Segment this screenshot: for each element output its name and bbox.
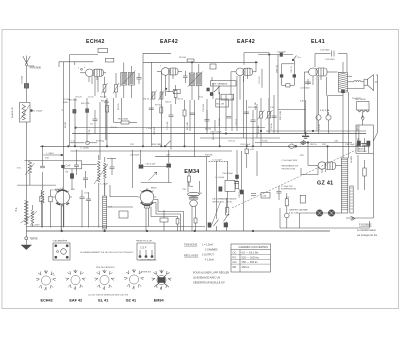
tube base diagram EM34 (152, 270, 172, 290)
antenna coil L1 (20, 103, 33, 201)
coupling coil (21, 205, 38, 227)
small box component (119, 211, 128, 218)
svg-text:R5 0,5MΩ: R5 0,5MΩ (118, 119, 128, 121)
tone capacitor C22 line (315, 50, 347, 73)
potentiometer line L.D. (70, 140, 97, 144)
wire (246, 146, 248, 149)
ECH42 anode wires down (95, 77, 98, 96)
svg-text:6,3V 0,3A: 6,3V 0,3A (320, 109, 330, 112)
AVC time-constant box (225, 161, 239, 207)
svg-text:PRISE PICK-UP: PRISE PICK-UP (136, 241, 153, 243)
magic eye EM34 tube (188, 181, 200, 231)
heater stub line (278, 109, 306, 111)
output transformer T4 (339, 62, 365, 158)
svg-text:R8 0,3M: R8 0,3M (187, 122, 189, 130)
junction dot (42, 146, 44, 148)
svg-text:ECH42: ECH42 (41, 299, 53, 303)
wire (303, 72, 305, 134)
short bus wire (43, 153, 63, 156)
svg-text:RES. VARIABLE: RES. VARIABLE (212, 83, 228, 86)
label FUSIBLE (357, 222, 378, 237)
junction dot (161, 146, 163, 148)
svg-text:C7 5k: C7 5k (89, 129, 91, 135)
lamp wires (299, 213, 341, 228)
wire (205, 157, 207, 231)
grid resistor R1 with arrow (102, 77, 108, 98)
svg-text:SELF: SELF (357, 125, 359, 131)
svg-text:LAMPES CADRAN: LAMPES CADRAN (289, 209, 308, 212)
svg-text:R15 0,5M: R15 0,5M (280, 111, 282, 120)
output pentode EL41 tube body (304, 68, 337, 76)
wire (277, 55, 279, 134)
AF network wires (133, 150, 172, 188)
svg-text:LA +250V: LA +250V (30, 223, 40, 226)
svg-text:R7 60k: R7 60k (155, 105, 163, 107)
EAF42-2 pin stubs (240, 75, 248, 99)
dial lamp 2 (328, 210, 334, 216)
svg-text:REGLE VOL. + TON.: REGLE VOL. + TON. (213, 201, 233, 203)
svg-text:R20 2MΩ: R20 2MΩ (152, 144, 162, 146)
mains switch capacitor blob (280, 53, 283, 57)
filter choke (103, 183, 107, 231)
ECH42 pin stubs (89, 77, 97, 85)
routed wire to EM34 socket (110, 185, 138, 197)
svg-text:C.50+50µF 350V: C.50+50µF 350V (282, 160, 298, 162)
switch on AVC bus (165, 141, 171, 147)
svg-text:R5 27k: R5 27k (118, 102, 120, 110)
svg-text:C28 50pF: C28 50pF (130, 155, 140, 157)
resistor blob right (62, 165, 65, 167)
screen resistor R2 with arrow (113, 73, 119, 98)
coupling resistor dark blob (167, 164, 171, 168)
svg-text:C E F: C E F (140, 246, 147, 250)
EAF42-1 pin stubs (166, 75, 174, 96)
heater bus wire (72, 133, 366, 135)
junction dot (104, 230, 106, 232)
capacitor C11 (165, 102, 174, 150)
IF transformer T1 secondary coil (120, 66, 136, 98)
resistor R23 (226, 208, 229, 216)
grid resistor with arrow (EAF42-1) (159, 91, 165, 101)
svg-text:VUE DE DESSOUS: VUE DE DESSOUS (96, 267, 115, 269)
trimmer arrow (149, 172, 157, 180)
svg-text:VUE ARRIÈRE: VUE ARRIÈRE (53, 240, 68, 243)
dial lamp 1 (316, 210, 322, 216)
wire (256, 151, 258, 176)
wire (231, 95, 233, 131)
transformer secondary winding (350, 186, 353, 213)
junction dot (327, 146, 329, 148)
electrolytic cap symbol 2 (301, 141, 307, 145)
wire (348, 92, 350, 158)
filter capacitor C51 (362, 138, 367, 152)
svg-text:C14 0,1: C14 0,1 (236, 118, 238, 126)
svg-text:C1 50pF: C1 50pF (22, 75, 24, 84)
svg-text:150 — 300 kc: 150 — 300 kc (242, 260, 259, 264)
capacitor C12b bars (190, 113, 195, 115)
svg-text:C30 0,05µF: C30 0,05µF (210, 131, 222, 133)
svg-text:2x300V: 2x300V (351, 155, 353, 163)
junction dot (225, 133, 227, 135)
svg-text:C5 50: C5 50 (88, 97, 94, 99)
svg-text:EM34: EM34 (154, 299, 165, 303)
svg-text:L.D.: L.D. (71, 140, 75, 142)
switch blob (224, 223, 228, 227)
GZ41 plate wire (327, 146, 329, 162)
resistor R4 (101, 98, 109, 146)
wire (243, 190, 245, 231)
wire (150, 62, 152, 146)
svg-text:TERRE: TERRE (30, 238, 39, 241)
resistor R12 (255, 98, 265, 146)
junction dot (74, 146, 76, 148)
svg-text:C. 10000: C. 10000 (80, 147, 90, 149)
svg-text:R16 1M: R16 1M (213, 132, 215, 140)
capacitor C15b bars (226, 116, 231, 118)
wire (236, 76, 238, 131)
resistor R8 (183, 100, 186, 146)
svg-text:C30 200: C30 200 (154, 126, 156, 135)
svg-text:L1 100pF: L1 100pF (33, 111, 43, 113)
ground symbol (21, 245, 31, 250)
svg-text:ECH42: ECH42 (86, 39, 105, 45)
junction dot (191, 62, 193, 64)
detector box lower (221, 94, 234, 100)
resistor R14 (266, 98, 273, 134)
cathode bus wire (70, 150, 232, 152)
svg-text:C. 0,05µF: C. 0,05µF (215, 177, 225, 179)
svg-text:C12 100: C12 100 (203, 103, 205, 112)
note la commande (213, 198, 238, 204)
svg-text:1 = 1,5mA: 1 = 1,5mA (202, 243, 213, 246)
AF coupling network (207, 99, 228, 131)
capacitor bars left (277, 186, 282, 200)
label lamps (289, 209, 308, 215)
svg-text:C+R: C+R (66, 165, 71, 168)
svg-text:est protégé par fus.: est protégé par fus. (357, 234, 378, 237)
svg-text:GÉNÉRATEUR MODULÉ H.F.: GÉNÉRATEUR MODULÉ H.F. (193, 281, 226, 284)
wire (246, 154, 248, 169)
label C50 (282, 160, 299, 170)
wire grid bus (converter top) (59, 55, 98, 147)
eye grid resistor R18 (188, 171, 193, 187)
loudspeaker (348, 75, 378, 91)
svg-text:SUPPRESSION: SUPPRESSION (281, 189, 297, 191)
padding capacitor left (40, 146, 45, 168)
svg-text:LA COMMANDE UNIQUE: LA COMMANDE UNIQUE (213, 198, 238, 201)
middle components row: AVC resistors (69, 98, 77, 146)
diagonal drive cord (dashed) (232, 150, 356, 208)
triode-hexode ECH42 tube body (80, 67, 106, 77)
oscillator trimmer C14 (107, 158, 116, 175)
svg-text:PROTECTION: PROTECTION (282, 168, 296, 170)
oscillator coil L3 (94, 157, 108, 195)
legend heading TOUTES LES (184, 243, 199, 258)
screen decoupling cluster (EAF42-1) (155, 105, 163, 147)
svg-text:PRISE 8 B: PRISE 8 B (141, 271, 152, 273)
wire (218, 86, 220, 94)
svg-text:R1 50k: R1 50k (63, 99, 71, 101)
svg-text:C8 40: C8 40 (107, 106, 109, 112)
svg-text:C21 5k: C21 5k (291, 66, 293, 72)
wire (236, 150, 238, 182)
resistor R3 (81, 98, 89, 143)
sprinkled component labels (45, 96, 361, 208)
wire (261, 69, 263, 88)
note block bottom (193, 271, 229, 284)
wire (243, 76, 245, 138)
tube base diagram EL41 (95, 270, 115, 290)
frame antenna coil (cadre) (25, 200, 29, 237)
EL41 pin stubs (313, 76, 321, 131)
svg-text:EM34: EM34 (184, 169, 199, 175)
resistor R5 horizontal (114, 119, 137, 125)
svg-text:452 kc: 452 kc (242, 265, 250, 269)
legend items (202, 243, 218, 261)
detector load box (210, 64, 216, 69)
secondary bus wire (200, 137, 280, 139)
svg-text:RESISTANCE DE: RESISTANCE DE (282, 165, 299, 168)
svg-text:0,1µF: 0,1µF (104, 102, 110, 104)
capacitor (80, 190, 85, 228)
chassis bus lower (26, 230, 330, 232)
svg-text:R18 2M: R18 2M (205, 155, 213, 157)
rear view socket box (pickup) (136, 241, 155, 261)
svg-text:R2 1MΩ: R2 1MΩ (69, 100, 77, 102)
junction dot (246, 146, 248, 148)
svg-text:SELF: SELF (107, 207, 113, 209)
svg-text:ECH42: ECH42 (55, 189, 62, 191)
speaker coupling capacitor blob (342, 90, 345, 93)
svg-text:R17 1kΩ: R17 1kΩ (96, 141, 105, 143)
detector load box long (211, 81, 237, 86)
GZ41 cathode wire (307, 143, 309, 166)
frame-grid coupling left: tuning gang section 1 (40, 190, 43, 228)
routed wires socket to magic eye (151, 200, 184, 232)
wire (286, 218, 288, 228)
wire (215, 226, 217, 231)
tube socket EM34 (underside view circle) (138, 188, 157, 231)
svg-text:GZ 41: GZ 41 (126, 299, 137, 303)
wire (241, 151, 243, 190)
svg-text:R6 2k: R6 2k (144, 99, 150, 101)
capacitor C17 (244, 112, 249, 114)
svg-text:TENSION: TENSION (358, 151, 367, 153)
pickup jack circle (285, 213, 290, 218)
mains voltage selector box (355, 99, 370, 125)
svg-text:C. 25µF 25V: C. 25µF 25V (281, 186, 293, 188)
wire (328, 96, 343, 116)
wire (121, 98, 123, 121)
svg-text:520 — 1620 kc: 520 — 1620 kc (242, 255, 260, 259)
electrolytic capacitor C40 on bus (288, 144, 297, 149)
svg-text:PO: PO (233, 255, 237, 259)
suppressor box (300, 195, 305, 203)
earth terminal circle (25, 237, 28, 245)
tube socket ECH42 (underside view circle) (53, 188, 72, 232)
svg-text:C9 100: C9 100 (110, 127, 118, 129)
switch blob 2 (208, 223, 211, 227)
svg-text:GO: GO (233, 260, 237, 264)
padder trimmer (83, 171, 88, 188)
terminal box TS2 (105, 58, 113, 62)
svg-text:6,0 — 18,1 Mc: 6,0 — 18,1 Mc (242, 251, 260, 255)
svg-text:C35 25µF: C35 25µF (239, 188, 241, 198)
IF transformer T1 primary coil (121, 63, 127, 99)
svg-text:R9 1kΩ: R9 1kΩ (179, 57, 186, 59)
wire (194, 100, 196, 157)
capacitor on AF line (251, 194, 256, 196)
svg-text:C25 5000: C25 5000 (325, 59, 335, 61)
coupling capacitor blob (219, 187, 222, 191)
wire (255, 62, 257, 72)
svg-text:R2 1M: R2 1M (65, 122, 67, 128)
decoupling blob (240, 190, 243, 194)
wire (215, 161, 217, 219)
GZ41 pin stubs (322, 169, 326, 173)
mains entry box (356, 125, 377, 153)
junction dot (142, 146, 144, 148)
wire (273, 95, 275, 134)
antenna jack arrow (352, 217, 356, 221)
svg-text:R11 2M: R11 2M (217, 104, 225, 106)
wire (219, 92, 221, 146)
svg-text:C6 125: C6 125 (75, 96, 83, 98)
svg-text:2 GAMMES: 2 GAMMES (205, 248, 218, 251)
padding resistor below (160, 210, 168, 231)
oscillator padder capacitor (74, 158, 79, 175)
tube base diagram GZ41 (124, 269, 144, 289)
speaker to switch wire (376, 75, 378, 133)
svg-text:C21 5000: C21 5000 (300, 88, 310, 90)
chassis bus upper (26, 223, 205, 226)
frequency table (231, 244, 271, 272)
tube base diagram ECH42 (36, 270, 56, 290)
svg-text:PLAGE OC: PLAGE OC (11, 106, 14, 118)
capacitor C13 (205, 110, 210, 134)
switch contact 2 (224, 198, 229, 231)
svg-text:R4 27k: R4 27k (100, 96, 108, 98)
lamp 2 (326, 77, 331, 134)
detector switch diagonal (214, 86, 220, 92)
svg-text:EL 41: EL 41 (98, 299, 108, 303)
capacitor C8b bars (149, 108, 154, 110)
phono pickup resistor (285, 193, 288, 213)
capacitor C9 (183, 71, 188, 83)
small box C35 (261, 193, 270, 199)
svg-text:EAF42: EAF42 (160, 39, 178, 45)
svg-text:EM34: EM34 (151, 188, 157, 190)
wire (142, 53, 144, 146)
svg-text:TENSIONS: TENSIONS (184, 243, 198, 247)
junction dot (255, 62, 257, 64)
wire (268, 55, 270, 134)
svg-text:6,3V: 6,3V (300, 101, 305, 103)
grid resistor dark blob (139, 165, 143, 169)
svg-text:R24 1k: R24 1k (310, 144, 318, 146)
svg-text:C. 25pF: C. 25pF (100, 184, 108, 186)
oscillator grid resistor R6 (66, 169, 74, 190)
trimmer capacitor C5 (137, 73, 142, 84)
wire (246, 100, 248, 146)
svg-text:GAMMES COUVERTES: GAMMES COUVERTES (239, 245, 269, 249)
dashed AF wire (209, 160, 228, 162)
svg-text:C10 0,1: C10 0,1 (176, 99, 184, 101)
svg-text:6,3V 0,3A: 6,3V 0,3A (289, 211, 299, 214)
decoupling R+C on bus (179, 57, 194, 62)
AF bus wire (155, 156, 210, 158)
junction dot (268, 54, 270, 56)
wire (211, 77, 213, 81)
svg-text:EAF 42: EAF 42 (69, 299, 82, 303)
switch contact (214, 220, 219, 227)
svg-text:C 100: C 100 (146, 128, 152, 130)
long bus top (B+ line) (143, 52, 171, 54)
svg-text:Le transformateur: Le transformateur (357, 229, 376, 232)
resistor (49, 190, 52, 228)
capacitor C7 (90, 110, 98, 134)
svg-text:FUSIBLE: FUSIBLE (359, 222, 372, 226)
svg-text:C19 100: C19 100 (259, 76, 261, 84)
tone network box (277, 64, 296, 87)
IF ground bus wire (76, 127, 266, 129)
antenna (23, 56, 30, 84)
oscillator rail top (25, 160, 64, 162)
svg-text:R13 1M: R13 1M (258, 125, 260, 133)
svg-text:C34 0,05µF: C34 0,05µF (222, 173, 234, 175)
wire (160, 72, 162, 131)
wire (256, 104, 258, 138)
svg-text:EAF42: EAF42 (237, 39, 255, 45)
svg-text:1MΩ: 1MΩ (63, 102, 68, 104)
svg-text:E.S.: E.S. (17, 168, 22, 170)
svg-text:LE BOBINAGE AVEC UN: LE BOBINAGE AVEC UN (193, 276, 220, 279)
junction dot (312, 130, 314, 132)
junction dot (260, 130, 262, 132)
svg-text:L 6,3V: L 6,3V (319, 123, 321, 130)
grid cap C23 (300, 79, 311, 90)
capacitor (86, 192, 91, 228)
capacitor C16 (251, 110, 256, 146)
note bottom right texts (281, 186, 297, 191)
junction dot (307, 142, 309, 144)
svg-text:C24 5000: C24 5000 (320, 50, 330, 52)
wire (189, 100, 191, 131)
pilot lamp bulbs mid-right (316, 77, 321, 134)
svg-text:OC: OC (233, 251, 237, 255)
svg-text:MF: MF (233, 265, 237, 269)
cathode cap bars EAF42-2 (234, 182, 239, 184)
svg-text:L. SELF: L. SELF (46, 153, 55, 155)
junction dot (252, 146, 254, 148)
junction dot (184, 146, 186, 148)
svg-text:4 1,8mA: 4 1,8mA (205, 259, 214, 262)
oscillator section wires (62, 110, 64, 228)
svg-text:B.E.: B.E. (15, 207, 18, 212)
oscillator feedback coil left (41, 172, 44, 228)
pentode EAF42 second tube body (231, 53, 269, 76)
svg-text:Le=CN, VUE DE DESSOUS DES: Le=CN, VUE DE DESSOUS DES CULOTS (88, 294, 129, 296)
junction dot (68, 146, 70, 148)
terminal box TS1 (98, 48, 108, 52)
svg-text:EL41: EL41 (311, 39, 325, 45)
heater run wire (255, 142, 352, 144)
cathode resistor R10 (174, 85, 177, 104)
junction dot (305, 133, 307, 135)
wire (99, 102, 101, 160)
svg-text:C11 0,05: C11 0,05 (167, 121, 169, 130)
filter capacitor C50 (356, 138, 361, 152)
